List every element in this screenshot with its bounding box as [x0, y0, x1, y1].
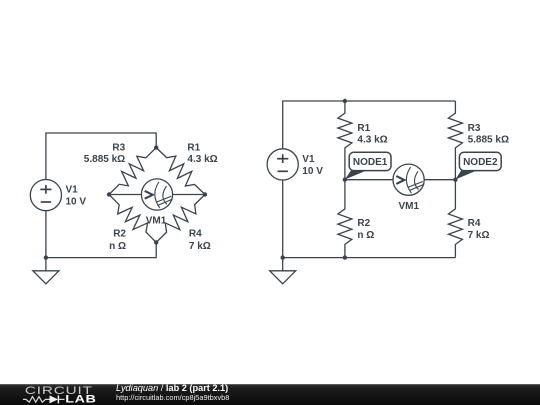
- svg-text:R1: R1: [187, 143, 200, 154]
- CircuitLab logo resistor squiggle: [23, 397, 50, 403]
- svg-text:V1: V1: [302, 154, 315, 165]
- svg-text:R3: R3: [112, 143, 125, 154]
- resistor R4 (right circuit, 7 k&#937;): [448, 180, 462, 258]
- resistor R1 (right circuit, 4.3 k&#937;): [338, 101, 352, 180]
- junction dot: bridge top node: [154, 145, 158, 149]
- svg-text:http://circuitlab.com/cp8j5a9t: http://circuitlab.com/cp8j5a9tbxvb8: [116, 393, 229, 402]
- voltmeter VM1 (left circuit) symbol: [141, 179, 172, 210]
- wire: left V1 bottom to ground junction: [45, 211, 47, 258]
- wire: right V1 top rail: [283, 101, 456, 149]
- svg-text:n Ω: n Ω: [357, 230, 374, 241]
- wire: VM1 to bridge right node: [173, 194, 205, 196]
- svg-text:4.3 kΩ: 4.3 kΩ: [357, 135, 387, 146]
- resistor R2 (left circuit, n &#937;): [109, 195, 156, 243]
- svg-text:R2: R2: [113, 229, 126, 240]
- junction dot: bridge bottom node: [154, 240, 158, 244]
- svg-text:10 V: 10 V: [302, 166, 323, 177]
- svg-text:VM1: VM1: [146, 216, 167, 227]
- voltage source V1 (left circuit): [30, 180, 61, 211]
- wire: right V1 bottom rail: [283, 180, 456, 258]
- footer bar background: [0, 384, 540, 405]
- svg-text:R2: R2: [357, 218, 370, 229]
- CircuitLab logo diode: [50, 395, 59, 403]
- svg-text:5.885 kΩ: 5.885 kΩ: [84, 154, 125, 165]
- junction dot: top rail / R1 branch: [343, 99, 347, 103]
- svg-text:4.3 kΩ: 4.3 kΩ: [187, 154, 217, 165]
- V1 (right circuit) minus sign: [278, 170, 288, 172]
- svg-text:7 kΩ: 7 kΩ: [468, 230, 490, 241]
- resistor R1 (left circuit, 4.3 k&#937;): [156, 148, 205, 195]
- junction dot: NODE2: [453, 178, 457, 182]
- junction dot: bridge right node: [203, 192, 207, 196]
- resistor R2 (right circuit, n &#937;): [338, 180, 352, 258]
- svg-text:n Ω: n Ω: [109, 241, 126, 252]
- svg-text:Lydiaquan / lab 2 (part 2.1): Lydiaquan / lab 2 (part 2.1): [116, 383, 228, 393]
- svg-text:5.885 kΩ: 5.885 kΩ: [468, 135, 509, 146]
- svg-text:7 kΩ: 7 kΩ: [189, 241, 211, 252]
- svg-text:R1: R1: [357, 123, 370, 134]
- svg-text:NODE2: NODE2: [463, 157, 498, 168]
- voltage source V1 (right circuit): [267, 149, 298, 180]
- svg-text:R4: R4: [189, 229, 202, 240]
- V1 (right circuit) plus sign: [277, 158, 288, 160]
- resistor R3 (left circuit, 5.885 k&#937;): [109, 148, 156, 195]
- svg-text:10 V: 10 V: [66, 197, 87, 208]
- svg-text:V1: V1: [66, 185, 79, 196]
- node NODE1 callout box: [349, 152, 391, 170]
- svg-text:VM1: VM1: [399, 201, 420, 212]
- svg-text:NODE1: NODE1: [353, 157, 388, 168]
- wire: NODE1 junction to VM1: [345, 179, 393, 181]
- resistor R3 (right circuit, 5.885 k&#937;): [448, 101, 462, 180]
- svg-text:LAB: LAB: [65, 393, 96, 405]
- junction dot: left ground junction: [44, 255, 48, 259]
- svg-text:R3: R3: [468, 123, 481, 134]
- junction dot: right ground junction: [281, 255, 285, 259]
- svg-text:R4: R4: [468, 218, 481, 229]
- node NODE1 pointer: [345, 170, 368, 179]
- resistor R4 (left circuit, 7 k&#937;): [156, 195, 205, 243]
- junction dot: bridge left node: [107, 192, 111, 196]
- node NODE2 pointer: [455, 170, 477, 179]
- wire: VM1 to NODE2 junction: [424, 179, 455, 181]
- junction dot: bottom rail / R2 branch: [343, 255, 347, 259]
- ground symbol (right circuit): [282, 258, 284, 271]
- wire: bridge bottom node to ground junction: [46, 242, 156, 257]
- node NODE2 callout box: [459, 152, 501, 170]
- junction dot: NODE1: [343, 178, 347, 182]
- V1 (left circuit) plus sign: [40, 188, 51, 190]
- wire: bridge left node to VM1: [109, 194, 141, 196]
- wire: left V1 top to bridge top node: [46, 133, 156, 180]
- voltmeter VM1 (right circuit) symbol: [393, 164, 424, 195]
- ground symbol (left circuit): [45, 258, 47, 271]
- V1 (left circuit) minus sign: [41, 201, 51, 203]
